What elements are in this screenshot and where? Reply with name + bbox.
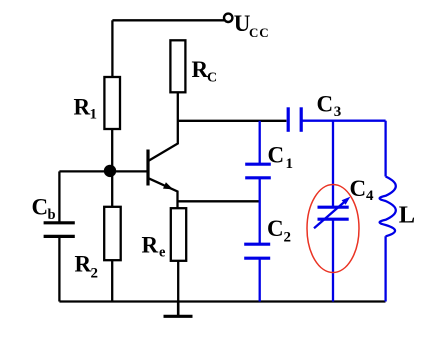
svg-text:2: 2 [284,230,292,246]
svg-text:C: C [267,216,284,241]
svg-text:R: R [74,95,91,120]
wire Cb top [58,171,60,223]
wire base [59,170,146,172]
svg-text:L: L [399,201,415,228]
inductor L [380,177,396,237]
capacitor Cb [44,223,75,237]
terminal Ucc [224,14,232,22]
svg-text:3: 3 [334,104,342,120]
wire R1 bottom to R2 top [111,129,113,207]
wire Re bottom [177,261,179,302]
svg-text:2: 2 [91,266,99,282]
transistor Q1 emitter [149,178,178,208]
wire L branch lower [384,236,386,301]
wire C4 branch upper [332,121,334,207]
wire bottom rail [59,300,385,302]
svg-text:C: C [317,92,334,117]
svg-text:C: C [32,195,49,220]
svg-text:1: 1 [90,107,98,123]
svg-text:R: R [192,57,209,82]
wire C4 bottom [332,219,334,301]
wire C1 branch upper [259,121,261,164]
svg-text:C: C [268,143,285,168]
svg-text:R: R [142,233,159,258]
svg-text:b: b [48,207,56,223]
wire C2 bottom [259,258,261,301]
svg-text:R: R [75,252,92,277]
resistor Re [171,208,186,261]
capacitor C4 arrow [314,201,346,229]
wire emitter branch [178,200,260,202]
wire C1 to C2 [259,178,261,244]
resistor RC [170,40,185,92]
wire top to R1 [111,20,113,77]
wire C3 to L blue top [301,120,385,122]
resistor R1 [104,77,120,129]
svg-text:4: 4 [366,188,374,204]
ground [164,302,193,317]
svg-text:1: 1 [286,156,294,172]
transistor Q1 emitter arrow [163,182,173,189]
svg-text:e: e [159,245,166,261]
wire Cb bottom [58,236,60,301]
wire L branch upper [384,121,386,177]
transistor Q1 collector [149,92,178,161]
resistor R2 [104,207,121,260]
svg-text:C: C [207,71,217,86]
node base junction [104,165,116,177]
capacitor C4 [318,207,349,219]
capacitor C1 [245,164,271,178]
red ellipse highlight [307,185,359,273]
wire collector to C3 [178,120,287,122]
capacitor C2 [244,244,270,258]
wire top rail [112,19,224,21]
transistor Q1 base bar [146,150,149,186]
wire R2 bottom [111,260,113,301]
svg-text:CC: CC [249,25,269,40]
capacitor C3 [288,107,301,132]
